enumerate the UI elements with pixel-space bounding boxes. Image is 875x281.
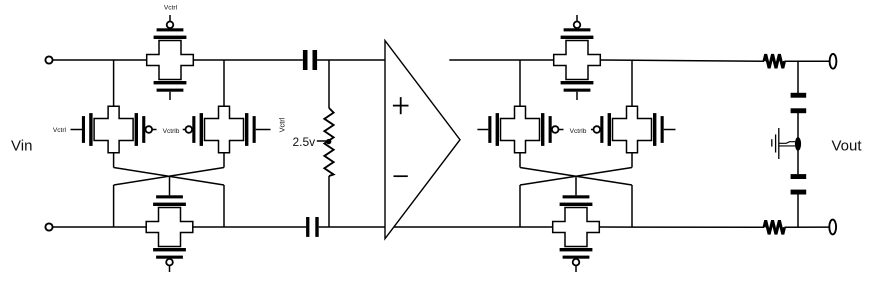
terminal Vout+ [830,54,837,69]
wire C3 to node [797,113,799,138]
wire top rail mid [193,59,302,61]
svg-text:Vout: Vout [832,138,863,155]
op-amp U1 [385,41,460,239]
wire M4 gate to cross node [169,176,171,195]
terminal Vout- [829,220,836,235]
svg-text:Vctrl: Vctrl [53,127,67,134]
wire M2 bubble lead [152,129,156,131]
wire M6 drain to top rail [631,60,633,106]
terminal Vin- [45,223,52,230]
transistor M1 [147,15,194,100]
current source bar tall [778,128,780,159]
resistor R1 [324,108,333,176]
capacitor C2 [306,217,309,237]
wire C2 to opamp [319,226,385,228]
resistor R3 [764,220,785,234]
node 2.5v junction [326,139,331,144]
resistor R2 [764,54,785,68]
wire 2.5v lead [317,140,327,142]
wire cross right down right section [631,185,633,227]
wire bottom rail left [53,226,147,228]
node output mid dot [795,137,801,151]
wire M3 source down [223,153,225,168]
wire M8 gate to cross node [575,176,577,195]
transistor M3 [186,106,256,153]
current source bar mid [775,134,777,152]
wire output node down [797,61,799,93]
wire cross diagonal C [520,168,632,186]
svg-text:2.5v: 2.5v [293,135,316,149]
wire node to C4 [797,150,799,174]
current source bar short [771,139,773,146]
wire T3 drain to top rail [223,60,225,106]
wire M3 gate lead right [256,129,271,131]
wire C4 to bottom rail [797,194,799,227]
wire cross right down [223,185,225,227]
capacitor C4 [791,174,807,179]
current source top lead [779,142,795,144]
wire Vctrlb to M6 bubble [591,129,593,131]
wire M5 gate lead left [477,129,488,131]
wire M6 source down [631,153,633,168]
wire T2 drain to top rail [113,60,115,106]
capacitor C1 [303,50,308,70]
wire Vctrl to M2 gate [71,129,83,131]
wire M5 bubble lead [559,129,564,131]
wire R3 to terminal [785,226,830,228]
wire Vctrlb to M3 bubble [183,129,186,131]
transistor M8 [553,195,600,272]
wire bottom rail right of opamp [394,226,553,228]
wire cross diagonal A [114,168,224,186]
wire T5 drain to top rail [519,60,521,106]
wire R2 to terminal [785,60,830,62]
wire cross left down right section [519,185,521,227]
wire C1 to opamp [317,59,385,61]
current source bottom lead [779,145,795,147]
wire bias node bottom [328,176,330,227]
op-amp - input label [394,175,408,177]
wire M6 gate lead right [664,129,676,131]
transistor M5 [488,106,558,153]
transistor M4 [146,195,193,272]
wire top rail right of opamp [449,59,553,61]
svg-text:Vctrlb: Vctrlb [163,128,180,135]
wire top rail to output [600,60,764,61]
wire M5 source down [519,153,521,168]
wire cross diagonal D [520,168,632,186]
wire bias node top [328,60,330,108]
capacitor C3 [791,93,807,98]
wire M2 source down [113,153,115,168]
wire bottom rail to output [599,226,764,228]
svg-text:Vctrl: Vctrl [278,117,287,132]
wire cross left down [113,185,115,227]
terminal Vin+ [45,56,52,63]
transistor M2 [82,106,152,153]
svg-text:Vctrlb: Vctrlb [570,128,587,135]
wire top rail left [53,59,147,61]
svg-text:Vin: Vin [11,138,32,155]
svg-text:Vctrl: Vctrl [164,5,178,12]
transistor M7 [554,15,601,100]
wire cross diagonal B [114,168,224,186]
transistor M6 [594,106,664,153]
op-amp + input label [393,105,409,107]
wire bottom rail mid [193,226,306,228]
